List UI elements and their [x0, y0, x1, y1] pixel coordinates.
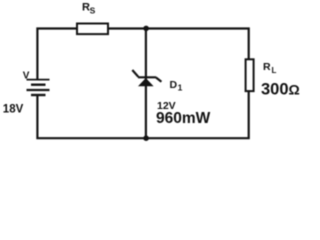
- svg-text:S: S: [90, 6, 96, 16]
- svg-text:V: V: [23, 71, 30, 82]
- svg-text:1: 1: [178, 82, 183, 92]
- svg-text:R: R: [263, 61, 271, 73]
- svg-text:18V: 18V: [3, 103, 24, 115]
- svg-text:D: D: [170, 79, 178, 91]
- svg-text:960mW: 960mW: [156, 110, 211, 127]
- svg-text:Ω: Ω: [289, 81, 300, 97]
- svg-text:L: L: [272, 66, 277, 75]
- svg-text:300: 300: [261, 80, 289, 98]
